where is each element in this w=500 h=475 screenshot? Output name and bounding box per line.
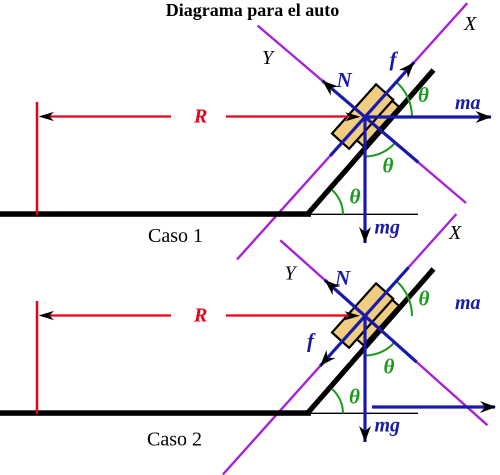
Y axis line (case 2) — [280, 240, 487, 425]
ma arrow (case 1) — [365, 115, 491, 118]
svg-text:Caso 2: Caso 2 — [147, 429, 202, 451]
Y axis line (case 1) — [258, 26, 467, 204]
angle arc at ramp base (case 2) — [332, 389, 343, 414]
incline ramp (case 1) — [307, 70, 434, 215]
car body rectangle (case 2) — [347, 291, 399, 345]
svg-text:θ: θ — [418, 83, 429, 107]
car cabin rectangle (case 2) — [332, 283, 393, 347]
svg-text:ma: ma — [455, 92, 481, 114]
X axis line (case 1) — [237, 3, 467, 259]
svg-text:Y: Y — [285, 263, 298, 285]
friction force f arrow (case 2) — [320, 268, 408, 366]
angle arc between X and horizontal (case 2) — [396, 281, 412, 316]
angle arc between mg and -Y (case 1) — [365, 143, 394, 156]
ma arrow (case 2) — [372, 405, 495, 408]
svg-text:R: R — [193, 305, 207, 327]
svg-text:ma: ma — [455, 292, 481, 314]
incline ramp (case 2) — [307, 269, 434, 414]
friction force f arrow (case 1) — [330, 62, 414, 156]
angle arc at ramp base (case 1) — [332, 190, 343, 215]
R dimension line right segment (case 2) — [226, 314, 352, 316]
svg-text:θ: θ — [383, 154, 394, 178]
R dimension line left segment (case 2) — [44, 314, 171, 316]
svg-text:Diagrama para el auto: Diagrama para el auto — [166, 0, 339, 20]
car body rectangle (case 1) — [347, 92, 399, 146]
ground thin extension (case 2) — [309, 412, 418, 414]
normal force N arrow (case 2) — [325, 280, 417, 362]
svg-text:R: R — [193, 106, 207, 128]
svg-text:mg: mg — [375, 415, 401, 437]
svg-text:θ: θ — [350, 185, 361, 209]
svg-text:N: N — [336, 68, 353, 92]
X axis line (case 2) — [223, 214, 457, 475]
R dimension line left segment (case 1) — [44, 115, 171, 117]
svg-text:Caso 1: Caso 1 — [148, 225, 203, 247]
svg-text:θ: θ — [419, 287, 430, 311]
ground thin extension (case 1) — [309, 213, 418, 215]
normal force N arrow (case 1) — [322, 81, 418, 163]
car cabin rectangle (case 1) — [332, 84, 393, 148]
red vertical reference line (case 1) — [36, 102, 39, 215]
mg weight arrow (case 2) — [363, 316, 366, 442]
R dimension line right segment (case 1) — [226, 115, 352, 117]
svg-text:Y: Y — [262, 47, 275, 69]
svg-text:X: X — [463, 13, 477, 35]
svg-text:N: N — [334, 266, 351, 290]
angle arc between mg and -Y (case 2) — [365, 342, 394, 355]
angle arc between f and horizontal (case 1) — [396, 82, 412, 117]
ground (case 2) — [0, 410, 311, 416]
mg weight arrow (case 1) — [363, 117, 366, 243]
svg-text:mg: mg — [375, 217, 401, 239]
R left arrowhead (case 1) — [39, 112, 55, 121]
ground (case 1) — [0, 211, 311, 217]
R right arrowhead (case 2) — [345, 311, 361, 320]
svg-text:θ: θ — [349, 385, 360, 409]
svg-text:θ: θ — [384, 355, 395, 379]
svg-text:X: X — [448, 222, 462, 244]
red vertical reference line (case 2) — [36, 301, 39, 414]
R left arrowhead (case 2) — [39, 311, 55, 320]
R right arrowhead (case 1) — [345, 112, 361, 121]
